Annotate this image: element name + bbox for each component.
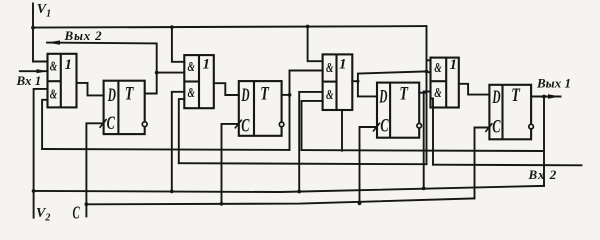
svg-text:T: T xyxy=(125,84,135,105)
svg-text:D: D xyxy=(107,85,116,106)
svg-text:&: & xyxy=(434,61,441,76)
svg-text:&: & xyxy=(50,59,57,74)
svg-text:&: & xyxy=(326,88,333,103)
svg-text:&: & xyxy=(188,86,195,101)
svg-text:C: C xyxy=(73,203,81,223)
svg-text:C: C xyxy=(241,116,249,137)
svg-text:C: C xyxy=(492,116,500,137)
svg-text:1: 1 xyxy=(450,57,458,73)
svg-text:Вых 1: Вых 1 xyxy=(536,75,571,90)
svg-text:C: C xyxy=(380,116,388,137)
svg-text:D: D xyxy=(379,87,388,108)
svg-text:Вх 2: Вх 2 xyxy=(528,167,558,182)
svg-text:T: T xyxy=(399,84,409,105)
svg-text:D: D xyxy=(492,87,501,108)
svg-text:T: T xyxy=(511,85,521,106)
svg-text:D: D xyxy=(241,85,250,106)
svg-text:&: & xyxy=(434,86,441,101)
svg-text:1: 1 xyxy=(339,56,347,72)
svg-text:1: 1 xyxy=(203,56,211,72)
svg-text:&: & xyxy=(50,88,57,103)
svg-text:C: C xyxy=(107,113,115,134)
svg-text:&: & xyxy=(188,60,195,75)
svg-text:Вых 2: Вых 2 xyxy=(64,28,103,43)
svg-text:T: T xyxy=(260,84,270,105)
svg-text:&: & xyxy=(326,61,333,76)
svg-text:1: 1 xyxy=(65,57,73,73)
svg-text:Вх 1: Вх 1 xyxy=(16,73,42,88)
